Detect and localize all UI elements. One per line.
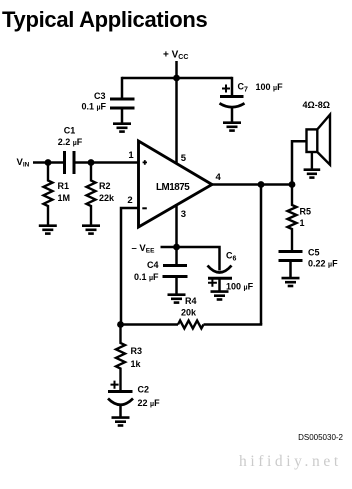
capacitor C3: [110, 99, 135, 123]
value label R5 1: [300, 207, 312, 229]
pin number 5: [181, 153, 187, 164]
svg-text:– VEE: – VEE: [132, 243, 156, 255]
value label C3 0.1uF: [81, 91, 106, 112]
pin number 3: [181, 209, 186, 220]
value label R1 1M: [58, 181, 71, 203]
svg-text:5: 5: [181, 153, 187, 164]
svg-text:2.2 µF: 2.2 µF: [58, 137, 83, 147]
value label C7 100uF: [222, 82, 283, 94]
svg-text:R2: R2: [99, 181, 111, 191]
svg-text:R4: R4: [185, 296, 197, 306]
value label R2 22k: [99, 181, 115, 203]
capacitor C6 (electrolytic): [208, 266, 233, 292]
svg-text:C1: C1: [64, 126, 76, 136]
capacitor C7 (electrolytic): [220, 97, 245, 123]
ground below C5: [282, 278, 300, 286]
node VIN label: [17, 157, 30, 169]
ground below speaker: [304, 170, 321, 178]
resistor R4: [178, 321, 204, 329]
title Typical Applications: [2, 7, 208, 32]
value label C1 2.2uF: [58, 126, 83, 148]
wire C3 lead: [121, 77, 124, 99]
document number DS005030-2: [298, 433, 343, 442]
svg-text:C4: C4: [147, 260, 159, 270]
svg-text:22k: 22k: [99, 193, 115, 203]
wire C7 lead: [231, 77, 234, 97]
wire pin5 supply lead: [175, 78, 178, 164]
node feedback bottom junction: [117, 321, 124, 328]
value label R4 20k: [181, 296, 197, 318]
svg-text:4: 4: [216, 172, 222, 183]
pin number 2: [127, 195, 132, 206]
ground below C7: [223, 123, 241, 131]
pin number 4: [216, 172, 222, 183]
wire speaker branch: [292, 141, 307, 184]
value label R3 1k: [131, 346, 143, 369]
wire speaker ground lead: [311, 152, 313, 169]
op-amp U1 LM1875: [139, 141, 213, 227]
wire VCC rail: [122, 77, 232, 80]
wire pin2 feedback leg: [121, 208, 139, 325]
capacitor C1: [65, 151, 75, 174]
svg-text:1k: 1k: [131, 359, 142, 369]
ground below C6: [211, 292, 229, 300]
wire -VEE stub: [161, 246, 177, 249]
wire -VEE to C6: [177, 247, 220, 271]
svg-text:100 µF: 100 µF: [226, 282, 254, 292]
svg-text:4Ω-8Ω: 4Ω-8Ω: [303, 100, 330, 110]
svg-text:C7: C7: [238, 82, 249, 94]
capacitor C4: [163, 247, 188, 294]
svg-text:0.22 µF: 0.22 µF: [308, 259, 338, 269]
value label C4 0.1uF: [134, 260, 159, 282]
pin number 1: [128, 150, 134, 161]
wire feedback bottom: [121, 323, 261, 325]
capacitor C2 (electrolytic): [108, 392, 133, 418]
svg-text:VIN: VIN: [17, 157, 30, 169]
capacitor C5: [279, 252, 303, 278]
svg-text:C3: C3: [94, 91, 106, 101]
svg-text:1: 1: [128, 150, 134, 161]
ground below C2: [112, 418, 130, 426]
resistor R3: [116, 325, 125, 392]
svg-text:DS005030-2: DS005030-2: [298, 433, 343, 442]
wire output pin4: [212, 183, 292, 186]
value label C2 22uF: [111, 381, 161, 408]
ground below R2: [82, 226, 100, 234]
svg-text:R5: R5: [300, 207, 312, 217]
svg-text:C6: C6: [226, 251, 237, 263]
wire C1 to pin1: [74, 161, 139, 164]
svg-text:Typical Applications: Typical Applications: [2, 7, 208, 32]
svg-text:0.1 µF: 0.1 µF: [81, 102, 106, 112]
node VCC junction: [173, 75, 180, 82]
svg-text:0.1 µF: 0.1 µF: [134, 272, 159, 282]
svg-text:2: 2: [127, 195, 132, 206]
svg-text:LM1875: LM1875: [156, 182, 190, 193]
resistor R5: [288, 185, 297, 252]
svg-text:20k: 20k: [181, 308, 197, 318]
svg-text:1M: 1M: [58, 193, 71, 203]
value label 4-8 ohm: [303, 100, 330, 110]
speaker LS1 4-8 ohm: [307, 115, 331, 165]
wire feedback vertical: [260, 185, 263, 325]
ground below C3: [113, 124, 131, 132]
value label C5 0.22uF: [308, 248, 338, 269]
svg-text:22 µF: 22 µF: [138, 398, 161, 408]
node feedback junction: [258, 181, 265, 188]
node -VEE label: [132, 243, 156, 255]
svg-text:R3: R3: [131, 346, 143, 356]
ground below C4: [168, 295, 186, 303]
svg-text:1: 1: [300, 218, 305, 228]
value label C6 100uF: [208, 251, 254, 292]
svg-text:hifidiy.net: hifidiy.net: [239, 453, 342, 470]
svg-text:+ VCC: + VCC: [163, 50, 188, 62]
wire input: [33, 161, 65, 164]
node input junction A: [45, 159, 52, 166]
resistor R1: [44, 163, 53, 225]
svg-text:100 µF: 100 µF: [256, 82, 284, 92]
wire pin3 lead: [175, 204, 178, 247]
svg-text:C5: C5: [308, 248, 320, 258]
watermark hifidiy.net: [239, 453, 342, 470]
resistor R2: [87, 163, 96, 225]
node output junction: [289, 181, 296, 188]
svg-text:R1: R1: [58, 181, 70, 191]
svg-text:C2: C2: [138, 385, 150, 395]
svg-text:3: 3: [181, 209, 186, 220]
wire +VCC lead: [175, 61, 178, 78]
node -VEE junction: [173, 244, 180, 251]
ground below R1: [39, 226, 57, 234]
node +VCC label: [163, 50, 188, 62]
node junction B: [88, 159, 95, 166]
